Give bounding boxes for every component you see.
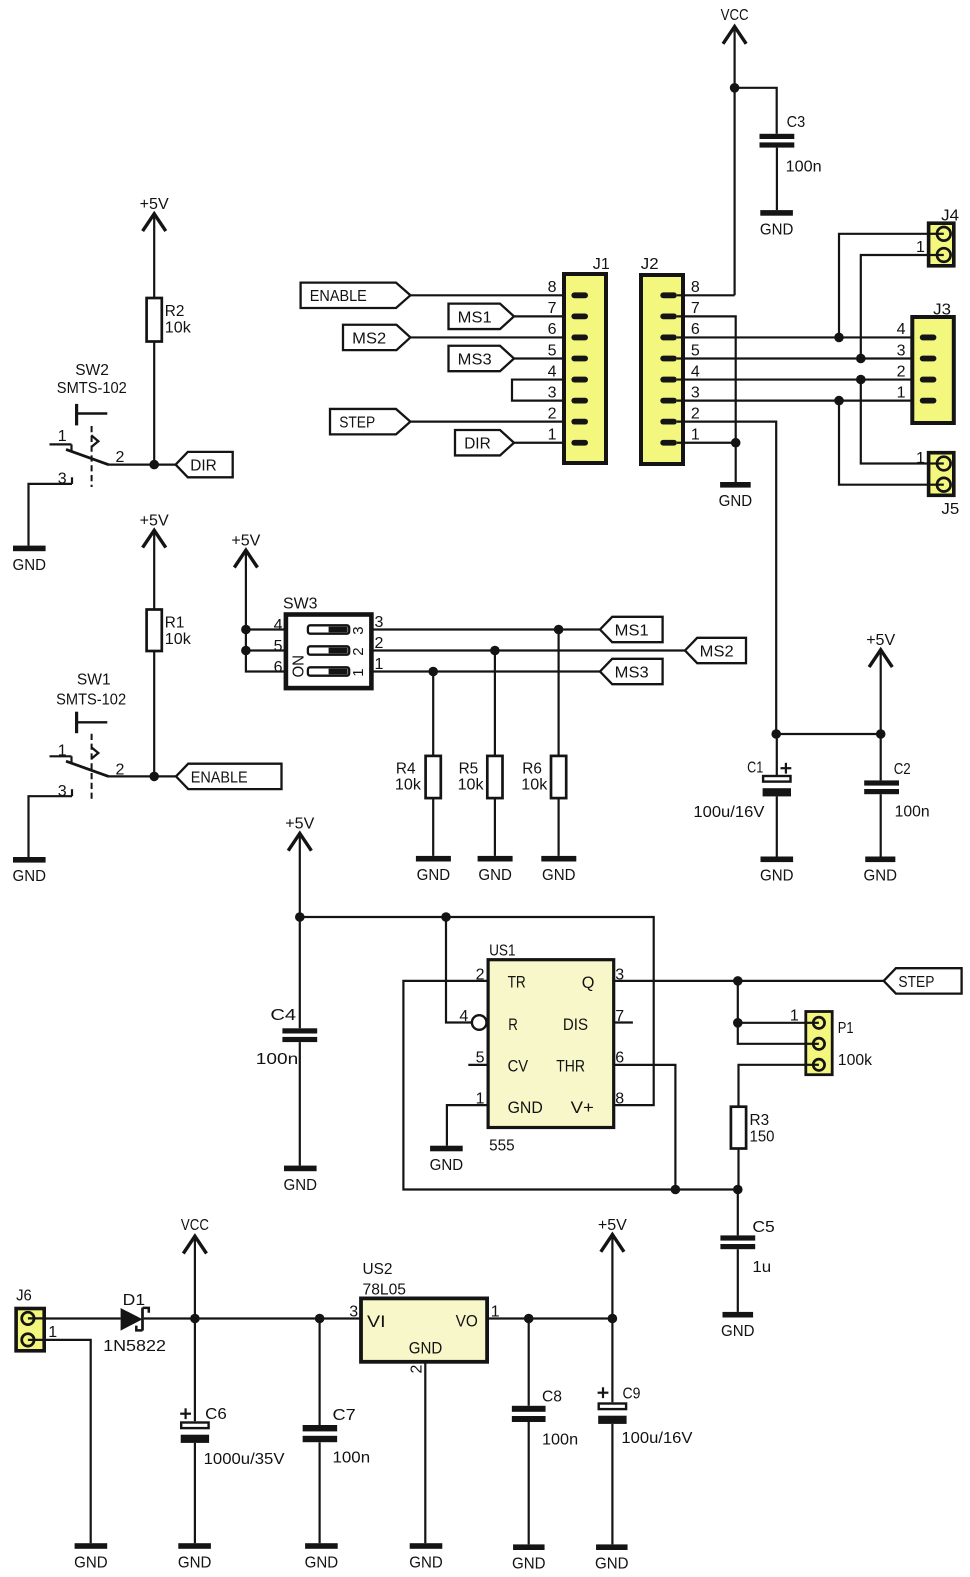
svg-text:5: 5: [691, 342, 700, 359]
svg-text:78L05: 78L05: [363, 1282, 407, 1299]
svg-text:+5V: +5V: [231, 533, 260, 550]
net flag MS1 (MS1 on J1): [449, 304, 515, 329]
wire rail to C2: [880, 734, 882, 780]
wire STEP node to P1 pin 1: [738, 981, 806, 1023]
svg-text:GND: GND: [760, 221, 794, 238]
capacitor C8 100n: [512, 1388, 578, 1448]
svg-text:CV: CV: [508, 1057, 529, 1076]
junction C2: [876, 729, 886, 739]
wire STEP to J1 pin 2: [410, 421, 564, 423]
svg-text:100k: 100k: [838, 1052, 873, 1069]
svg-text:8: 8: [615, 1090, 624, 1107]
svg-text:R2: R2: [165, 303, 185, 320]
svg-text:5: 5: [274, 638, 283, 655]
svg-text:1: 1: [897, 384, 906, 401]
net flag DIR (DIR on SW2): [176, 452, 233, 477]
wire +5V to VO rail: [611, 1237, 613, 1319]
wire SW2 pin 3 to GND: [29, 484, 73, 546]
svg-text:GND: GND: [178, 1554, 212, 1571]
junction DIR node: [149, 460, 159, 470]
junction J3 pin 1 node: [834, 396, 844, 406]
wire US1 pin 1 to GND: [447, 1105, 488, 1146]
svg-text:DIR: DIR: [190, 458, 217, 475]
svg-text:2: 2: [350, 647, 367, 655]
junction MS2/R5: [490, 646, 500, 656]
svg-text:3: 3: [350, 626, 367, 634]
svg-text:V+: V+: [571, 1098, 594, 1117]
svg-text:MS3: MS3: [458, 351, 492, 368]
wire J2 pin 5 to J3 pin 3: [677, 357, 921, 359]
svg-text:3: 3: [897, 342, 906, 359]
svg-text:+5V: +5V: [140, 196, 169, 213]
svg-text:1: 1: [58, 428, 67, 445]
junction MS1/R6: [554, 625, 564, 635]
junction J3 pin 2 node: [856, 375, 866, 385]
resistor R5 10k: [458, 756, 503, 798]
capacitor C7 100n: [303, 1407, 370, 1467]
wire J6 to D1 anode: [44, 1317, 120, 1319]
svg-text:MS1: MS1: [458, 309, 492, 326]
junction C8: [524, 1314, 534, 1324]
svg-text:1: 1: [48, 1324, 57, 1341]
svg-text:GND: GND: [13, 868, 47, 885]
wire rail to C6: [194, 1319, 196, 1422]
connector J1: [548, 256, 610, 463]
trimmer P1 100k: [790, 1007, 873, 1074]
wire C8 to GND: [528, 1422, 530, 1544]
capacitor C5 1u: [720, 1219, 775, 1276]
wire rail to C9: [611, 1319, 613, 1403]
wire C7 to GND: [319, 1442, 321, 1543]
ground C6: [178, 1543, 212, 1571]
svg-text:GND: GND: [760, 868, 794, 885]
svg-text:R5: R5: [459, 761, 479, 778]
svg-text:100n: 100n: [256, 1051, 298, 1068]
capacitor C4 100n: [256, 1007, 317, 1068]
DIP switch SW3: [274, 595, 384, 688]
net flag ENABLE (ENABLE on J1): [301, 283, 411, 308]
resistor R2: [147, 298, 192, 342]
svg-text:3: 3: [349, 1304, 358, 1321]
svg-text:STEP: STEP: [898, 974, 934, 991]
svg-text:GND: GND: [864, 868, 898, 885]
resistor R3 150: [731, 1107, 775, 1149]
junction R3/C5: [733, 1185, 743, 1195]
wire +5V to SW3 pins 4-6: [246, 552, 286, 671]
svg-text:Q: Q: [582, 973, 595, 992]
svg-text:3: 3: [548, 384, 557, 401]
wire SW1 pin 3 to GND: [29, 796, 73, 857]
svg-text:GND: GND: [430, 1157, 464, 1174]
svg-text:J1: J1: [593, 256, 610, 273]
wire VCC to J2 pin 8: [733, 30, 735, 295]
diode D1 1N5822: [103, 1292, 166, 1355]
svg-text:THR: THR: [556, 1057, 585, 1076]
wire SW1 pin 2 to ENABLE node: [109, 775, 176, 777]
svg-text:GND: GND: [409, 1339, 443, 1358]
svg-text:4: 4: [274, 617, 283, 634]
svg-text:MS2: MS2: [700, 643, 734, 660]
svg-text:2: 2: [409, 1365, 426, 1374]
net flag STEP (STEP on J1): [330, 409, 410, 434]
svg-text:SW1: SW1: [77, 672, 111, 689]
svg-text:C8: C8: [542, 1388, 562, 1405]
ground C9: [595, 1544, 629, 1572]
svg-text:5: 5: [548, 342, 557, 359]
svg-text:GND: GND: [512, 1556, 546, 1573]
junction J3 pin 4 node: [834, 333, 844, 343]
wire MS3 row to R4: [432, 672, 434, 756]
capacitor C6 1000u/35V: [180, 1406, 285, 1468]
svg-text:VI: VI: [367, 1312, 386, 1331]
wire J6 pin 1 to GND: [44, 1340, 90, 1543]
svg-text:SW2: SW2: [75, 362, 109, 379]
svg-text:R4: R4: [396, 761, 416, 778]
svg-text:+5V: +5V: [598, 1217, 627, 1234]
junction SW3 pin 5: [241, 646, 251, 656]
ground C4: [284, 1166, 318, 1194]
wire J2 pin 4 to J3 pin 2: [677, 378, 921, 380]
wire J2 pin 7 to GND rail: [677, 316, 736, 482]
svg-text:SW3: SW3: [283, 595, 318, 612]
wire VCC to rail: [194, 1238, 196, 1318]
ground J2: [719, 482, 753, 510]
+5V symbol output rail: [598, 1217, 627, 1252]
net flag MS1 (MS1 on SW3): [600, 617, 663, 642]
svg-text:C7: C7: [333, 1407, 356, 1424]
svg-text:GND: GND: [74, 1554, 108, 1571]
svg-text:1u: 1u: [752, 1259, 771, 1276]
+5V symbol SW3 common: [231, 533, 260, 568]
regulator US2 78L05: [349, 1261, 499, 1374]
wire SW3 pin 4 stub: [246, 628, 286, 630]
wire SW2 pin 2 to DIR node: [109, 464, 176, 466]
wire rail to C7: [319, 1319, 321, 1426]
svg-text:J4: J4: [941, 208, 959, 225]
ground C3: [760, 210, 794, 238]
svg-text:J3: J3: [933, 302, 951, 319]
junction THR node: [671, 1185, 681, 1195]
svg-text:10k: 10k: [521, 777, 548, 794]
+5V symbol C2 rail: [866, 632, 895, 667]
svg-text:TR: TR: [508, 973, 526, 992]
wire SW3 pin 2 to MS2: [371, 649, 685, 651]
VCC symbol top rail: [721, 7, 749, 44]
svg-text:US2: US2: [363, 1261, 393, 1278]
wire US1 pin 2 feedback: [403, 981, 737, 1190]
wire US1 pin 6 THR to rail: [614, 1065, 676, 1190]
wire rail to C4: [299, 917, 301, 1028]
wire US1 pin 4 to rail: [446, 917, 472, 1023]
svg-text:3: 3: [58, 783, 67, 800]
wire rail to C1: [776, 734, 778, 776]
svg-text:GND: GND: [13, 557, 47, 574]
svg-text:GND: GND: [508, 1098, 543, 1117]
svg-text:8: 8: [548, 279, 557, 296]
wire SW3 pin 5 stub: [246, 649, 286, 651]
wire C1 to GND: [776, 796, 778, 856]
ground C5: [721, 1312, 755, 1340]
ground US1: [430, 1146, 464, 1174]
svg-text:7: 7: [548, 300, 557, 317]
wire J4 pin 2 to MS2 row: [861, 255, 929, 358]
wire C2 to GND: [880, 794, 882, 856]
svg-text:4: 4: [691, 363, 700, 380]
svg-text:J2: J2: [641, 256, 659, 273]
svg-text:R3: R3: [750, 1112, 770, 1129]
wire US1 pin 5 stub: [468, 1064, 488, 1066]
wire C3 to GND: [776, 148, 778, 211]
svg-text:ENABLE: ENABLE: [191, 769, 248, 786]
svg-text:+5V: +5V: [140, 513, 169, 530]
svg-text:MS2: MS2: [352, 330, 386, 347]
svg-text:10k: 10k: [458, 777, 485, 794]
svg-text:100u/16V: 100u/16V: [621, 1430, 692, 1447]
wire DIR to J1 pin 1: [514, 442, 564, 444]
svg-text:100n: 100n: [542, 1432, 578, 1449]
svg-text:1: 1: [548, 427, 557, 444]
wire +5V to R1: [153, 533, 155, 610]
svg-text:10k: 10k: [165, 320, 192, 337]
svg-text:10k: 10k: [165, 631, 192, 648]
resistor R4 10k: [395, 756, 441, 798]
wire J2 pin 2 to +5V rail: [677, 422, 776, 734]
svg-text:C5: C5: [752, 1219, 775, 1236]
wire rail to C8: [528, 1319, 530, 1406]
svg-text:GND: GND: [542, 867, 576, 884]
wire D1 to US2 VI rail: [144, 1317, 361, 1319]
net flag ENABLE (ENABLE on SW1): [176, 764, 282, 789]
connector J2: [641, 256, 700, 464]
wire R1 to ENABLE node: [153, 651, 155, 777]
svg-text:1: 1: [691, 427, 700, 444]
svg-text:J5: J5: [941, 501, 959, 518]
wire US1 pin 3 Q to STEP: [614, 980, 884, 982]
ground R4: [416, 856, 451, 884]
svg-text:C3: C3: [787, 114, 806, 131]
wire J2 pin 1 to GND rail: [677, 442, 736, 444]
+5V symbol 555 rail: [285, 816, 314, 851]
net flag DIR (DIR on J1): [455, 430, 514, 455]
svg-text:SMTS-102: SMTS-102: [56, 691, 126, 708]
svg-text:C4: C4: [270, 1007, 296, 1024]
svg-text:R: R: [508, 1015, 518, 1034]
ground C2: [864, 857, 898, 885]
wire MS3 to J1 pin 5: [514, 357, 564, 359]
wire J5 pin 1 to MS3 row: [861, 380, 929, 464]
wire +5V to C1/C2 rail: [880, 652, 882, 734]
svg-text:+5V: +5V: [866, 632, 895, 649]
net flag MS2 (MS2 on J1): [343, 325, 410, 350]
svg-text:+5V: +5V: [285, 816, 314, 833]
svg-text:MS1: MS1: [615, 622, 649, 639]
svg-text:150: 150: [750, 1129, 775, 1146]
svg-text:100n: 100n: [895, 803, 930, 820]
ground US2: [409, 1543, 443, 1571]
wire J1 pin 4 to pin 3 strap: [512, 380, 564, 401]
svg-text:GND: GND: [409, 1554, 443, 1571]
junction SW3 pin 4: [241, 625, 251, 635]
ground R5: [478, 856, 513, 884]
svg-text:J6: J6: [16, 1288, 32, 1305]
wire P1 pin 2 strap: [738, 1023, 806, 1044]
svg-text:2: 2: [691, 405, 700, 422]
wire C5 to GND: [737, 1249, 739, 1312]
net flag MS3 (MS3 on J1): [449, 346, 515, 371]
svg-text:4: 4: [897, 321, 906, 338]
svg-text:100u/16V: 100u/16V: [693, 804, 764, 821]
wire R5 to GND: [494, 798, 496, 856]
svg-text:100n: 100n: [786, 158, 822, 175]
wire top rail to V+ riser: [300, 917, 654, 1105]
wire MS1 row to R6: [557, 630, 559, 756]
svg-text:4: 4: [548, 363, 557, 380]
svg-text:10k: 10k: [395, 777, 422, 794]
svg-text:SMTS-102: SMTS-102: [57, 380, 127, 397]
net flag STEP (STEP near P1): [884, 968, 962, 993]
svg-text:P1: P1: [838, 1020, 854, 1037]
connector J4: [916, 208, 959, 266]
svg-text:GND: GND: [719, 493, 753, 510]
wire P1 pin 3 to R3: [739, 1065, 806, 1107]
wire +5V rail C1-C2: [776, 733, 881, 735]
ground J6: [74, 1543, 108, 1571]
wire MS2 row to R5: [494, 651, 496, 756]
ground SW2: [13, 546, 47, 574]
svg-text:1: 1: [916, 239, 925, 256]
svg-text:100n: 100n: [333, 1450, 371, 1467]
svg-text:GND: GND: [417, 867, 451, 884]
wire R6 to GND: [557, 798, 559, 856]
junction P1 pins 1-2: [733, 1018, 743, 1028]
svg-text:1000u/35V: 1000u/35V: [204, 1451, 285, 1468]
wire US1 pin 7 stub: [614, 1021, 633, 1023]
junction ENABLE node: [149, 772, 159, 782]
junction VCC/C3: [730, 83, 740, 93]
svg-text:8: 8: [691, 279, 700, 296]
wire C6 to GND: [194, 1443, 196, 1543]
wire VCC branch to C3: [735, 88, 777, 134]
wire R4 to GND: [432, 798, 434, 856]
svg-text:C1: C1: [747, 760, 763, 777]
svg-text:2: 2: [548, 405, 557, 422]
+5V symbol R1 pull-up: [140, 513, 169, 548]
capacitor C2 100n: [864, 761, 929, 821]
svg-text:7: 7: [691, 300, 700, 317]
svg-text:ENABLE: ENABLE: [310, 288, 367, 305]
connector J5: [916, 450, 959, 518]
svg-text:VO: VO: [456, 1311, 478, 1330]
ground C7: [305, 1543, 339, 1571]
junction C9/+5V: [608, 1314, 618, 1324]
capacitor C9 100u/16V: [598, 1385, 693, 1447]
svg-text:C9: C9: [623, 1385, 641, 1402]
svg-text:GND: GND: [284, 1177, 318, 1194]
junction MS3/R4: [428, 667, 438, 677]
svg-text:VCC: VCC: [181, 1217, 209, 1234]
svg-text:MS3: MS3: [615, 664, 649, 681]
wire R2 to DIR node: [153, 342, 155, 465]
wire J4 pin 1 to MS1 row: [839, 234, 929, 338]
wire MS1 to J1 pin 7: [514, 315, 564, 317]
wire J5 pin 2 to DIR row: [839, 401, 929, 485]
svg-text:C2: C2: [894, 761, 911, 778]
junction J3 pin 3 node: [856, 354, 866, 364]
switch SW1 SMTS-102: [50, 672, 127, 800]
wire ENABLE to J1 pin 8: [410, 294, 564, 296]
svg-text:555: 555: [489, 1138, 515, 1155]
svg-text:VCC: VCC: [721, 7, 749, 24]
svg-text:1N5822: 1N5822: [103, 1338, 166, 1355]
connector J3: [897, 302, 954, 424]
wire +5V to R2: [153, 216, 155, 298]
junction J2 GND: [731, 438, 741, 448]
svg-text:D1: D1: [123, 1292, 146, 1309]
wire J2 pin 8 to VCC: [677, 294, 735, 296]
wire +5V to top rail: [299, 836, 301, 917]
svg-text:GND: GND: [595, 1556, 629, 1573]
wire J2 pin 3 to J3 pin 1: [677, 400, 921, 402]
wire SW3 pin 3 to MS1: [371, 628, 600, 630]
svg-text:6: 6: [691, 321, 700, 338]
svg-text:1: 1: [350, 668, 367, 676]
resistor R1: [147, 610, 192, 652]
wire US2 GND pin to GND: [424, 1362, 426, 1543]
svg-text:2: 2: [897, 363, 906, 380]
connector J6: [16, 1288, 57, 1351]
junction STEP/P1: [733, 976, 743, 986]
capacitor C1 100u/16V: [693, 760, 791, 821]
svg-text:US1: US1: [489, 943, 516, 960]
svg-text:R6: R6: [522, 761, 542, 778]
US1 pin 4 inversion bubble: [472, 1015, 487, 1030]
junction reset riser: [441, 912, 451, 922]
resistor R6 10k: [521, 756, 566, 798]
junction C7: [315, 1314, 325, 1324]
wire C9 to GND: [611, 1424, 613, 1545]
wire R3 to rail: [737, 1149, 739, 1190]
svg-text:1: 1: [790, 1007, 799, 1024]
net flag MS3 (MS3 on SW3): [600, 659, 663, 684]
junction VCC/C6: [190, 1314, 200, 1324]
svg-text:3: 3: [691, 384, 700, 401]
svg-text:GND: GND: [478, 867, 512, 884]
timer IC US1 555: [459, 943, 624, 1155]
svg-text:DIS: DIS: [563, 1015, 588, 1034]
wire J2 pin 6 to J3 pin 4: [677, 336, 921, 338]
ground R6: [541, 856, 576, 884]
svg-text:C6: C6: [205, 1406, 227, 1423]
junction C1: [771, 729, 781, 739]
+5V symbol R2 pull-up: [140, 196, 169, 231]
wire US2 VO to +5V rail: [487, 1317, 612, 1319]
ground C1: [760, 857, 794, 885]
ground SW1: [13, 857, 47, 885]
svg-text:6: 6: [548, 321, 557, 338]
junction C4/+5V: [295, 912, 305, 922]
svg-text:GND: GND: [721, 1323, 755, 1340]
wire SW3 pin 1 to MS3: [371, 670, 600, 672]
ground C8: [512, 1544, 546, 1572]
svg-text:ON: ON: [291, 655, 308, 678]
svg-text:STEP: STEP: [339, 415, 375, 432]
switch SW2 SMTS-102: [50, 362, 127, 488]
net flag MS2 (MS2 on SW3): [685, 638, 746, 663]
wire rail to C5: [737, 1190, 739, 1236]
svg-text:GND: GND: [305, 1554, 339, 1571]
capacitor C3 100n: [760, 114, 822, 175]
svg-text:R1: R1: [165, 615, 185, 632]
